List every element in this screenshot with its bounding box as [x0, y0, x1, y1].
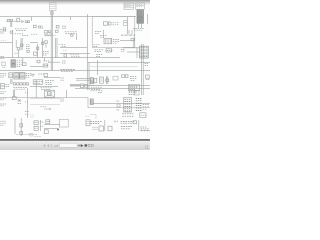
- label R bottom: [90, 86, 102, 90]
- label D text: [44, 34, 53, 36]
- label O bottom: [40, 88, 51, 90]
- IC U18: [113, 76, 118, 80]
- wire vertical right power bus: [142, 44, 144, 95]
- viewer top shadow band: [0, 0, 150, 5]
- wire vertical bottom mid: [104, 120, 106, 131]
- wire vertical right edge segment: [147, 14, 149, 24]
- wire O tee: [31, 74, 35, 77]
- IC U17: [99, 77, 103, 83]
- resistor R12: [135, 91, 139, 95]
- wire vertical left bus: [12, 30, 14, 58]
- wire vertical AF: [138, 120, 140, 131]
- wire assorted 1: [60, 45, 87, 48]
- wire A horizontal: [6, 20, 17, 22]
- label faint 85-116: [85, 115, 89, 117]
- IC U21: [108, 126, 112, 131]
- IC block U10 outline: [92, 17, 135, 48]
- IC U5 sub boxes: [103, 22, 111, 25]
- wire vertical left lower: [26, 88, 28, 118]
- wire vertical inside U10 right: [126, 17, 128, 34]
- wire lower right bus 2: [75, 88, 150, 90]
- label T text: [130, 76, 136, 80]
- connector J1: [49, 3, 56, 11]
- IC U4: [45, 31, 51, 33]
- label M right: [26, 74, 32, 78]
- label L text: [17, 61, 23, 67]
- label specks 58-44: [58, 45, 66, 51]
- IC U22: [34, 121, 38, 125]
- capacitor C2: [10, 19, 12, 21]
- label J2 side: [6, 85, 9, 87]
- toolbar page nav glyphs: [44, 144, 59, 148]
- diode D2: [18, 99, 20, 102]
- label bus ticks: [145, 64, 148, 66]
- connector J1 sub box: [50, 12, 53, 14]
- table T2: [136, 3, 144, 9]
- transistor Q2: [20, 131, 23, 134]
- resistor R1: [25, 21, 27, 23]
- resistor R2: [28, 21, 30, 23]
- label M bottom row: [13, 87, 27, 89]
- connector J4: [140, 113, 146, 118]
- capacitor C8: [106, 79, 109, 82]
- IC U16: [90, 78, 93, 84]
- wire vertical F stem: [103, 30, 105, 38]
- IC U7: [106, 49, 112, 52]
- label AE rows: [90, 122, 101, 124]
- crystal X1: [45, 90, 55, 97]
- wire vertical mid: [65, 90, 67, 98]
- capacitor C12: [45, 41, 48, 48]
- IC U11: [43, 64, 48, 67]
- resistor R14: [133, 121, 137, 124]
- wire bottom small net 2: [44, 128, 58, 130]
- relay K1: [17, 18, 20, 22]
- label step net left: [60, 99, 64, 101]
- label net names P: [60, 70, 74, 72]
- label Z arrow: [40, 107, 51, 110]
- label X rows: [0, 92, 6, 106]
- resistor R15: [46, 120, 50, 124]
- wire A stems: [11, 22, 12, 27]
- connector J2: [0, 84, 4, 89]
- wire H net: [120, 38, 134, 41]
- label AI rows: [0, 121, 5, 125]
- wire vertical main right: [87, 14, 89, 90]
- transistor Q1: [20, 124, 23, 127]
- wire main top bus: [0, 16, 136, 18]
- capacitor C9: [44, 130, 48, 134]
- wire K feeds: [123, 47, 140, 58]
- label specks 62: [62, 61, 66, 63]
- wire O bus: [30, 86, 58, 88]
- wire Q lines: [70, 79, 90, 86]
- IC U3: [137, 17, 143, 23]
- wire mid bus: [0, 57, 120, 59]
- label V rows: [129, 91, 137, 94]
- label N text: [43, 60, 49, 62]
- label F2: [100, 35, 106, 37]
- capacitor C6: [44, 74, 48, 77]
- label left specks 56: [0, 57, 4, 59]
- viewer bottom separator line: [0, 139, 150, 141]
- resistor R3: [33, 25, 36, 28]
- svg-text:11: 11: [145, 145, 150, 150]
- wire long horizontal bus: [0, 70, 150, 72]
- toolbar slider box: [60, 143, 78, 147]
- pin ticks AL: [140, 127, 147, 131]
- wire vertical H pins: [129, 30, 132, 34]
- capacitor C10: [10, 31, 13, 33]
- resistor R6: [22, 63, 26, 66]
- IC U19: [90, 99, 93, 104]
- wire faint mid net: [90, 66, 138, 68]
- label J bottom extra: [96, 55, 102, 57]
- toolbar play button: [79, 144, 84, 147]
- label A text row: [15, 29, 27, 31]
- label O text: [38, 73, 44, 75]
- wire right horizontal: [88, 61, 150, 63]
- resistor R17: [17, 48, 19, 58]
- label block U: [128, 85, 139, 91]
- svg-text:1/5: 1/5: [54, 144, 58, 148]
- label U3 text: [133, 29, 144, 31]
- wire stepped net: [0, 98, 150, 108]
- pin ticks X: [25, 92, 29, 114]
- resistor R7: [37, 60, 40, 63]
- wire M stems: [11, 79, 12, 84]
- connector J3: [146, 75, 150, 80]
- wire vertical branch 37: [37, 44, 39, 58]
- IC U12: [9, 73, 13, 78]
- toolbar zoom-in icon: [88, 144, 91, 147]
- capacitor C5: [71, 33, 77, 40]
- capacitor C4: [39, 26, 43, 29]
- node junction bottom: [57, 129, 59, 131]
- label specks near O: [60, 78, 64, 80]
- label AF right: [140, 128, 148, 130]
- wire bottom right net: [140, 129, 150, 131]
- capacitor C1: [7, 19, 9, 21]
- connector J5: [86, 120, 90, 126]
- capacitor C7: [94, 78, 97, 82]
- wire vertical bus N: [55, 38, 57, 58]
- pin row P1: [121, 34, 134, 36]
- viewer toolbar background: [0, 141, 150, 150]
- label left margin B: [0, 29, 6, 33]
- capacitor C3: [3, 28, 6, 30]
- table T1: [124, 3, 133, 9]
- label specks 14-53: [14, 52, 18, 54]
- wire vertical bottom left pair: [15, 118, 21, 136]
- label mid rows 2: [43, 51, 49, 55]
- label small left: [30, 115, 34, 117]
- IC U2: [137, 10, 143, 16]
- wire small step 96: [90, 115, 96, 119]
- label mid-left rows: [26, 45, 30, 49]
- capacitor C11: [27, 50, 29, 52]
- wire O net: [44, 77, 60, 79]
- label bottom mid F: [62, 25, 66, 27]
- table W1: [124, 97, 132, 112]
- wire U3 stems: [139, 23, 142, 28]
- label band rows y34: [15, 34, 38, 36]
- IC U6: [104, 38, 112, 43]
- toolbar stop button: [85, 144, 87, 146]
- table W2: [136, 98, 142, 110]
- toolbar info icon: [145, 145, 150, 150]
- wire left short: [0, 41, 12, 43]
- wire vertical branch 42: [42, 38, 44, 58]
- IC U14: [20, 73, 25, 79]
- IC U25: [124, 20, 128, 25]
- label inside U10: [95, 32, 101, 34]
- label F text: [112, 23, 118, 25]
- label AD rows: [122, 114, 133, 116]
- label AA row: [90, 91, 102, 93]
- resistor R11: [125, 75, 128, 78]
- wire lower right bus 1: [70, 85, 150, 87]
- IC U13: [14, 73, 19, 79]
- wire assorted 2: [60, 54, 90, 57]
- label M left rows: [0, 73, 6, 77]
- wire vertical connector stem: [51, 10, 52, 70]
- resistor array RN1: [13, 83, 28, 85]
- wire Y net: [30, 98, 60, 100]
- resistor R4: [56, 25, 59, 28]
- wire bottom small net 1: [44, 124, 60, 126]
- pin ticks AE: [114, 121, 117, 123]
- label X small: [18, 103, 22, 105]
- wire D3 branch: [16, 38, 22, 50]
- label left of K: [121, 49, 125, 51]
- wire net to right edge: [93, 103, 150, 105]
- wire AG stems: [40, 120, 44, 131]
- wire drop top bus: [32, 17, 71, 21]
- IC U15: [33, 80, 43, 84]
- wire vertical O: [35, 80, 37, 98]
- IC block U24: [59, 119, 68, 127]
- wire N net: [30, 62, 60, 66]
- capacitor C13: [2, 62, 6, 67]
- diode D1: [22, 20, 24, 22]
- pin ticks AC: [117, 100, 120, 110]
- label J text: [94, 50, 103, 52]
- resistor R8: [80, 84, 83, 87]
- IC U9: [11, 64, 15, 67]
- wire vertical S pair: [106, 76, 107, 84]
- IC U20: [92, 126, 103, 131]
- resistor R5: [55, 30, 58, 32]
- label E row: [65, 32, 77, 34]
- label F bottom: [93, 45, 99, 47]
- label AF rows: [121, 121, 135, 128]
- wire branch 2: [30, 43, 38, 56]
- label W right: [143, 104, 149, 109]
- wire vertical Q stem: [97, 60, 99, 75]
- resistor R13: [12, 97, 16, 100]
- label 14: [62, 26, 66, 28]
- label U6 right: [113, 39, 119, 43]
- table K rows: [140, 46, 149, 58]
- toolbar zoom-out icon: [91, 144, 94, 147]
- label page footer: [16, 133, 40, 136]
- resistor R16: [20, 44, 23, 46]
- IC U23: [34, 126, 38, 130]
- wire vertical K stem: [133, 38, 135, 48]
- wire faint net Y2: [30, 103, 60, 105]
- resistor R9: [85, 85, 88, 88]
- IC U8: [11, 60, 15, 63]
- wire right pair second: [88, 62, 90, 90]
- wire drop from mid bus: [23, 58, 45, 63]
- label O mid: [45, 81, 53, 85]
- wire assorted 3: [44, 34, 56, 36]
- resistor R10: [122, 75, 125, 78]
- wire X stems: [13, 90, 14, 97]
